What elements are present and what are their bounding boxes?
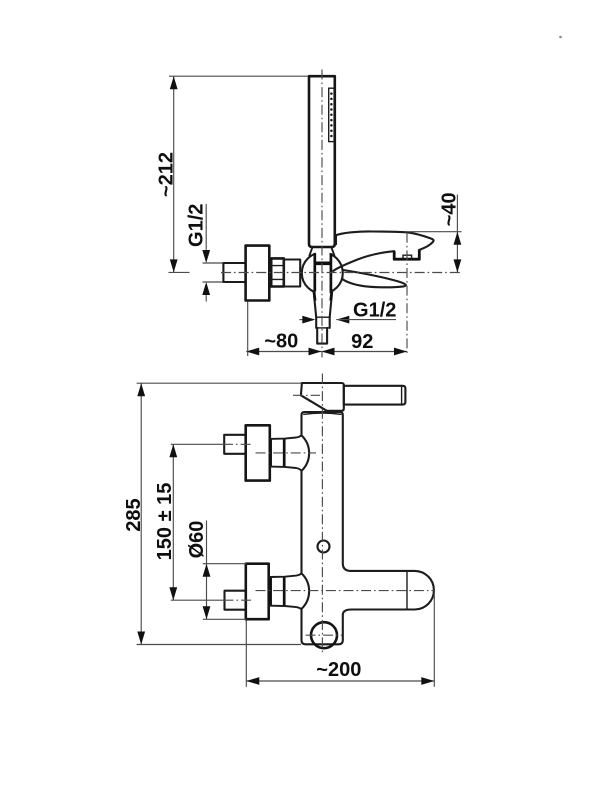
body outline with bath spout tube [302, 412, 434, 644]
union hex nut [271, 258, 284, 286]
wall flange escutcheon [246, 246, 270, 301]
arrow 150 bottom [169, 587, 177, 600]
extension 150 lower + centerline lower pipe axis [171, 599, 224, 601]
arrow G1/2 down [202, 250, 210, 263]
lower connector top edge [270, 573, 302, 577]
arrow ~80 right [309, 348, 322, 356]
holder tube white mask over circle [316, 250, 330, 296]
centerline upper connection axis [256, 452, 317, 454]
hex nut facet lines [271, 266, 284, 280]
valve body circle [302, 253, 343, 294]
arrow O60 up [203, 564, 211, 577]
aerator notch [403, 255, 412, 259]
arrow O60 down [203, 606, 211, 619]
centerline main axis [221, 272, 461, 274]
hand shower wand [309, 76, 335, 247]
lower flange Ø60 [246, 564, 269, 620]
upper boss arc [302, 435, 310, 471]
body left edge between unions [300, 471, 302, 573]
holder flare left [309, 247, 312, 255]
extension line spout top [405, 231, 462, 233]
arrow G1/2 lower right-pointing [302, 316, 315, 324]
extension 150 upper + centerline upper pipe axis [171, 443, 223, 445]
lower eccentric connector heavy edges [271, 577, 285, 607]
extension line from hand-shower top [169, 75, 310, 77]
diverter circle [318, 541, 330, 553]
lower connector bottom edge [270, 606, 302, 610]
outlet bottom stub G1/2 [317, 328, 327, 344]
centerline shower axis [321, 70, 323, 358]
arrow ~80 left [246, 348, 259, 356]
extension line 285 bottom [137, 644, 301, 646]
FRONT VIEW (lower elevation) [123, 374, 434, 687]
lever head [301, 383, 344, 411]
holder flare right [331, 247, 334, 255]
svg-text:~200: ~200 [316, 659, 361, 681]
holder joint band [314, 261, 332, 265]
holder tube bar right [330, 253, 333, 291]
arrow 150 top [169, 444, 177, 457]
extension line O60 bottom [203, 618, 247, 620]
svg-text:92: 92 [351, 331, 373, 353]
arrow G1/2 up [202, 282, 210, 295]
arrow 285 top [137, 383, 145, 396]
arrow 92 right [394, 348, 407, 356]
extension line ~200 right [433, 593, 435, 687]
dimension line O60 [206, 521, 208, 620]
centerline spout tube axis [256, 590, 435, 592]
lever rod [344, 386, 406, 405]
spout left edge [335, 235, 337, 244]
outlet mid section [316, 317, 330, 328]
upper flange Ø60 [246, 425, 270, 480]
svg-text:~40: ~40 [439, 192, 461, 226]
dimension line ~212 [173, 76, 175, 272]
outlet step line [316, 316, 330, 318]
dimension line G1/2 upper [205, 204, 207, 302]
aerator housing [394, 250, 419, 259]
extension line pipe bottom [203, 281, 227, 283]
spray nozzle dots [330, 92, 333, 137]
svg-text:~80: ~80 [264, 331, 298, 353]
extension line outlet axis 92 [406, 233, 408, 356]
artifact dot [559, 36, 562, 39]
upper connector bottom edge [270, 467, 302, 471]
svg-text:G1/2: G1/2 [186, 204, 208, 247]
svg-text:285: 285 [123, 498, 145, 531]
upper wall pipe [224, 435, 246, 454]
lever rod cap line [401, 386, 403, 404]
arrow ~200 right [421, 677, 434, 685]
wall supply pipe [223, 263, 245, 282]
dimension line 150 [172, 444, 174, 600]
drain circle [311, 622, 337, 648]
spout underside curve [333, 251, 394, 271]
extension line pipe top [203, 262, 224, 264]
arrow ~212 bottom [170, 259, 178, 272]
svg-text:150 ± 15: 150 ± 15 [154, 483, 176, 561]
outlet heavy collar right [331, 292, 332, 301]
spray strip [329, 88, 334, 141]
outlet taper right [330, 292, 332, 317]
outlet step line 2 [316, 327, 330, 329]
outlet taper left [314, 292, 317, 317]
centerline body axis [321, 374, 323, 655]
arrow 285 bottom [137, 632, 145, 645]
TOP VIEW (side elevation) [155, 70, 461, 358]
extension line ~200 left [245, 621, 247, 687]
outlet heavy collar left [314, 292, 315, 301]
dimension line ~200 [246, 680, 434, 682]
arrow ~40 up [454, 232, 462, 245]
holder tube bar left [313, 253, 316, 291]
extension line 285 top [137, 382, 301, 384]
tube cap joint line [406, 571, 408, 609]
lower boss arc [302, 573, 310, 609]
lever handle (side) [342, 270, 406, 287]
lower wall pipe [225, 591, 246, 610]
arrow G1/2 lower left-pointing [336, 316, 349, 324]
arrow ~200 left [246, 677, 259, 685]
dimension line ~40 [456, 195, 458, 273]
neck arc under lever [303, 413, 341, 414]
upper eccentric connector heavy edges [271, 439, 285, 468]
svg-text:~212: ~212 [155, 152, 177, 197]
svg-text:G1/2: G1/2 [353, 300, 396, 322]
upper connector top edge [270, 435, 302, 439]
extension line O60 top [203, 563, 247, 565]
centerline lever stub [293, 394, 320, 396]
arrow ~40 down [454, 259, 462, 272]
centerline drain circle [306, 634, 343, 636]
extension line flange bottom [247, 302, 249, 357]
G1/2 lower leader left [299, 319, 303, 321]
G1/2 lower underline [336, 319, 396, 321]
extension line ~212 bottom [169, 271, 190, 273]
arrow 92 left [322, 348, 335, 356]
arrow ~212 top [170, 76, 178, 89]
connector cylinder [284, 260, 300, 287]
svg-text:Ø60: Ø60 [186, 521, 208, 559]
dimension line 285 [140, 383, 142, 644]
dimension line ~80 / 92 [246, 351, 407, 353]
spout outline [336, 231, 434, 250]
